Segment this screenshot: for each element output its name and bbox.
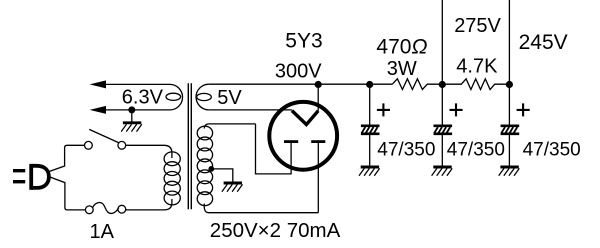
wire 5V bottom to tube — [209, 109, 292, 111]
transformer primary winding wire bottom to fuse — [126, 199, 172, 210]
wire junction to ground — [131, 110, 133, 122]
wire filament to rail — [317, 85, 319, 111]
plug P1 body — [31, 164, 49, 190]
svg-text:1A: 1A — [90, 221, 115, 243]
winding 6.3V hairpin — [106, 84, 183, 110]
node dot R1-R2 junction — [439, 81, 446, 88]
winding 5V hairpin — [196, 84, 209, 110]
ground G3 — [359, 167, 380, 176]
resistor R2 4.7K — [443, 79, 509, 90]
transformer HV secondary loops — [197, 126, 212, 206]
svg-text:300V: 300V — [275, 60, 322, 82]
capacitor C2 47/350 — [434, 85, 463, 166]
capacitor C1 47/350 — [361, 85, 390, 166]
svg-text:470Ω: 470Ω — [376, 35, 427, 58]
switch S1 arm — [89, 129, 118, 142]
ground G4 — [432, 167, 453, 176]
svg-text:275V: 275V — [454, 15, 501, 37]
node dot 6.3V ground junction — [128, 106, 135, 113]
transformer HV secondary wire bottom — [204, 204, 318, 213]
winding 5V loop — [197, 93, 212, 100]
ground G5 — [499, 167, 520, 176]
wire plug to switch — [50, 145, 85, 171]
wire right plate to HV bottom — [317, 142, 319, 213]
tube V1 5Y3 envelope — [269, 102, 337, 170]
transformer HV secondary wire top — [204, 124, 255, 129]
svg-text:47/350: 47/350 — [447, 139, 505, 160]
ground G1 — [121, 123, 142, 132]
svg-text:250V×2 70mA: 250V×2 70mA — [210, 219, 341, 242]
tube V1 plate right — [311, 140, 325, 143]
fuse F1 terminal left — [85, 206, 93, 214]
wire switch to transformer primary — [126, 144, 164, 146]
wire 245V vertical — [508, 0, 510, 84]
switch S1 contact right — [118, 141, 126, 149]
svg-text:47/350: 47/350 — [523, 139, 581, 160]
fuse F1 wave — [93, 203, 119, 214]
svg-text:5V: 5V — [217, 87, 242, 109]
tube V1 filament — [292, 111, 318, 125]
svg-text:3W: 3W — [387, 58, 417, 80]
switch S1 contact left — [85, 141, 93, 149]
fuse F1 terminal right — [118, 205, 126, 213]
svg-text:4.7K: 4.7K — [456, 55, 498, 77]
capacitor C3 47/350 — [501, 85, 530, 166]
transformer T1 core — [188, 83, 191, 209]
wire 5V top rail — [209, 83, 392, 85]
node dot C1 top — [366, 81, 373, 88]
ground G2 — [222, 183, 243, 192]
transformer primary winding loops — [164, 152, 180, 205]
arrow 6.3V lower — [90, 106, 106, 114]
plug P1 prong lower — [13, 180, 25, 183]
svg-text:5Y3: 5Y3 — [285, 30, 322, 53]
transformer primary winding wire top — [164, 145, 172, 158]
resistor R1 470ohm 3W — [392, 79, 442, 90]
winding 6.3V loop — [166, 93, 181, 100]
svg-text:245V: 245V — [519, 31, 568, 54]
wire center tap to ground — [211, 169, 233, 183]
node dot HV center tap — [208, 166, 214, 172]
plug P1 prong upper — [13, 169, 25, 172]
arrow 6.3V upper — [90, 80, 106, 88]
node dot 300V — [315, 81, 322, 88]
tube V1 plate left — [284, 140, 298, 143]
svg-text:47/350: 47/350 — [377, 139, 435, 160]
node dot 245V — [506, 81, 513, 88]
wire 275V vertical — [441, 0, 443, 84]
svg-text:6.3V: 6.3V — [122, 86, 164, 108]
wire plug to fuse — [50, 177, 86, 210]
wire left plate to HV top — [256, 124, 292, 174]
